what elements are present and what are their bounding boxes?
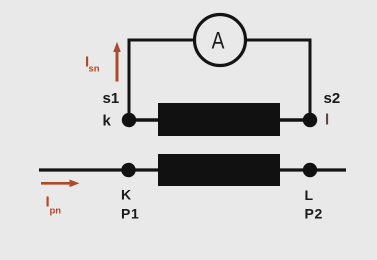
label P2: [305, 206, 324, 222]
ammeter U1: [195, 15, 246, 66]
svg-text:K: K: [121, 187, 131, 203]
label s1: [103, 90, 120, 107]
svg-text:k: k: [103, 113, 112, 130]
node K: [121, 163, 135, 177]
svg-text:pn: pn: [50, 206, 62, 217]
label k: [103, 113, 112, 130]
svg-text:sn: sn: [89, 64, 100, 75]
current arrow Isn: [113, 42, 121, 82]
node L: [303, 163, 317, 177]
primary conductor bar (resistor): [158, 154, 280, 186]
svg-text:l: l: [325, 112, 329, 129]
current arrow Ipn: [41, 180, 80, 188]
wire top rail: k up, across, down to l: [129, 40, 310, 121]
svg-text:P2: P2: [305, 206, 324, 222]
label L: [305, 187, 314, 203]
label Isn: [85, 54, 100, 75]
node k: [122, 113, 136, 127]
label l: [325, 112, 329, 129]
label P1: [121, 206, 140, 222]
shunt resistor (secondary burden): [158, 103, 280, 136]
wire primary conductor: [39, 168, 346, 171]
label Ipn: [46, 194, 62, 217]
svg-text:s1: s1: [103, 90, 120, 107]
label s2: [324, 90, 341, 107]
svg-text:A: A: [212, 28, 225, 55]
node l: [303, 113, 317, 127]
label K: [121, 187, 131, 203]
svg-text:s2: s2: [324, 90, 341, 107]
svg-text:P1: P1: [121, 206, 140, 222]
wire secondary: k to l through shunt: [129, 118, 310, 121]
svg-text:L: L: [305, 187, 314, 203]
